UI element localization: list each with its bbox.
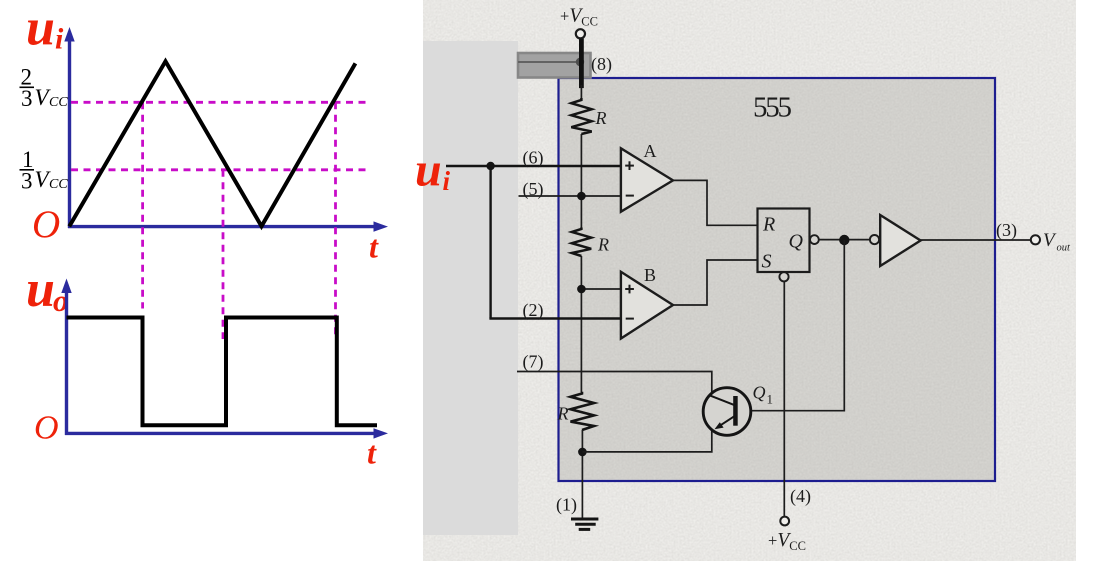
wire Q1 emitter to resistor node (582, 430, 711, 452)
wire divider lower (580, 256, 582, 392)
svg-text:CC: CC (49, 95, 68, 110)
wire Q branch down to Q1 collector (751, 240, 845, 411)
flip-flop U1 (RS latch) (758, 209, 810, 273)
transistor Q1 (703, 383, 773, 436)
svg-text:(4): (4) (790, 486, 811, 507)
op-amp B (621, 265, 673, 339)
pin 3 terminal (1031, 235, 1040, 244)
svg-text:3: 3 (21, 86, 33, 111)
buffer (output stage) (880, 215, 920, 266)
svg-text:Q: Q (753, 383, 766, 403)
x axis (65, 432, 376, 435)
node divider B plus (577, 285, 586, 294)
svg-text:u: u (26, 0, 55, 57)
svg-text:(3): (3) (996, 220, 1017, 241)
waveform plot 2 : uo(t) (26, 261, 388, 471)
y axis (65, 289, 68, 435)
resistor R1 (top) (571, 98, 591, 134)
wire divider to comparator B plus (581, 288, 620, 290)
wire resistor3 to ground (581, 430, 583, 518)
wire buffer to pin 3 (921, 239, 1031, 241)
wire pin8 thick (579, 39, 584, 89)
+VCC terminal (pin 8) (560, 6, 598, 39)
555 IC inner shaded region (559, 78, 996, 481)
svg-text:R: R (762, 214, 775, 236)
highlight bar at pin 8 (518, 53, 591, 78)
y axis (68, 38, 71, 228)
buffer input bubble (870, 235, 879, 244)
svg-text:CC: CC (49, 177, 68, 192)
svg-text:i: i (55, 23, 64, 56)
svg-text:O: O (34, 410, 59, 447)
threshold line 2/3 (71, 101, 366, 104)
triangle wave ui (69, 61, 355, 226)
svg-text:(1): (1) (556, 495, 577, 516)
ground (571, 519, 598, 529)
dashed marker 2 (222, 170, 225, 339)
svg-text:R: R (595, 108, 607, 128)
svg-text:t: t (369, 229, 379, 265)
wire pin8 to resistor (580, 85, 582, 99)
svg-text:u: u (415, 144, 442, 197)
resistor R2 (middle) (572, 228, 591, 257)
wire comparator A output to FF R (673, 180, 758, 225)
svg-text:(7): (7) (523, 352, 544, 373)
pin 4 terminal (780, 517, 789, 526)
square wave uo (67, 318, 378, 426)
svg-text:(2): (2) (523, 300, 544, 321)
dashed marker 3 (334, 102, 337, 339)
node ui split (486, 162, 494, 170)
svg-text:(5): (5) (523, 179, 544, 200)
svg-text:S: S (762, 251, 772, 273)
scan paper background (423, 0, 1076, 561)
555 IC boundary box (559, 78, 996, 481)
svg-text:u: u (26, 261, 55, 318)
op-amp A (621, 141, 673, 212)
gray mask rectangle (423, 41, 518, 535)
wire pin4 vertical (783, 282, 785, 517)
svg-text:R: R (597, 235, 609, 255)
wire divider upper (580, 134, 582, 228)
wire ui to comparator A + (pin 6) (446, 165, 620, 167)
svg-text:(6): (6) (523, 148, 544, 169)
wire ui down to pin2 (489, 166, 491, 319)
node Q branch (839, 235, 849, 245)
resistor R3 (bottom) (571, 392, 595, 430)
svg-text:555: 555 (753, 92, 792, 124)
svg-text:t: t (367, 435, 377, 471)
wire pin5 to comparator A minus (519, 195, 621, 197)
svg-text:O: O (32, 203, 60, 246)
x axis (68, 225, 376, 228)
threshold line 1/3 (71, 168, 366, 171)
svg-text:3: 3 (21, 169, 33, 194)
waveform plot 1 : ui(t) (20, 0, 389, 339)
paper grain (423, 0, 1076, 561)
svg-text:out: out (1057, 243, 1072, 254)
node resistor3 bottom (578, 448, 587, 457)
node divider pin5 (577, 192, 586, 201)
svg-text:A: A (644, 141, 657, 161)
wire pin2 to comparator B minus (489, 317, 620, 319)
Q output bubble (810, 235, 819, 244)
wire pin7 (517, 372, 712, 394)
dashed marker 1 (141, 102, 144, 308)
svg-text:1: 1 (767, 392, 774, 407)
FF bottom bubble (779, 272, 788, 281)
svg-text:(8): (8) (591, 54, 612, 75)
svg-text:Q: Q (789, 231, 804, 253)
svg-text:B: B (644, 265, 656, 285)
wire comparator B output to FF S (673, 260, 758, 305)
svg-text:R: R (557, 404, 569, 424)
svg-text:i: i (443, 166, 451, 196)
wire Q to buffer (819, 239, 870, 241)
